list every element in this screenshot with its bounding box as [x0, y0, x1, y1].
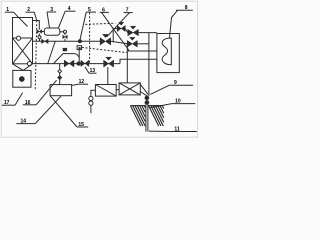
svg-text:3: 3 — [50, 7, 53, 13]
svg-text:12: 12 — [79, 79, 85, 85]
svg-text:13: 13 — [90, 68, 96, 74]
svg-text:17: 17 — [4, 100, 10, 106]
svg-text:10: 10 — [175, 99, 181, 105]
svg-text:14: 14 — [21, 119, 27, 125]
svg-text:1: 1 — [6, 7, 9, 13]
svg-text:16: 16 — [25, 100, 31, 106]
svg-text:9: 9 — [174, 80, 177, 86]
svg-text:2: 2 — [27, 7, 30, 13]
svg-text:15: 15 — [78, 122, 84, 128]
svg-text:6: 6 — [102, 7, 105, 13]
svg-text:7: 7 — [126, 8, 129, 14]
svg-text:11: 11 — [174, 127, 180, 133]
svg-text:8: 8 — [185, 5, 188, 11]
svg-text:5: 5 — [88, 7, 91, 13]
svg-text:4: 4 — [68, 6, 71, 12]
